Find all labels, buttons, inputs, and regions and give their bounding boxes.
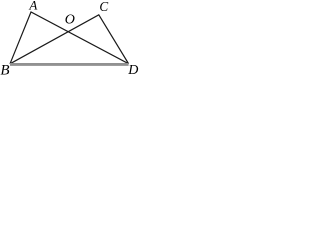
svg-text:A: A	[28, 0, 37, 12]
svg-text:D: D	[127, 63, 138, 76]
wire segment BD (gray base line B to D)	[10, 63, 129, 66]
wire path B-C-D: diagonal BC up through O to C then segment CD down	[10, 15, 129, 64]
svg-text:C: C	[99, 0, 108, 14]
svg-text:B: B	[0, 63, 9, 76]
wire path B-A-D: segment AB rising to apex A then diagonal AD down through O	[10, 12, 129, 64]
svg-text:O: O	[65, 13, 75, 28]
